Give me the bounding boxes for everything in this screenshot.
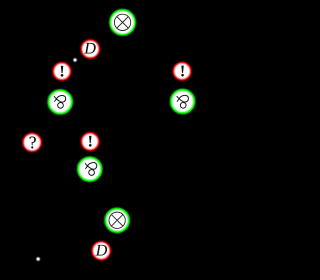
node D1 <box>81 40 99 58</box>
edge dot A <box>73 58 76 61</box>
node par3 <box>78 158 101 181</box>
node tensor2 <box>106 209 129 232</box>
edge dot B <box>36 257 40 261</box>
node whynot <box>23 134 41 152</box>
node bang2 <box>174 63 191 80</box>
node D2 <box>92 242 110 260</box>
node tensor1 <box>110 10 135 35</box>
node bang1 <box>53 63 70 80</box>
node par2 <box>171 90 194 113</box>
node bang3 <box>82 133 99 150</box>
node par1 <box>49 90 72 113</box>
